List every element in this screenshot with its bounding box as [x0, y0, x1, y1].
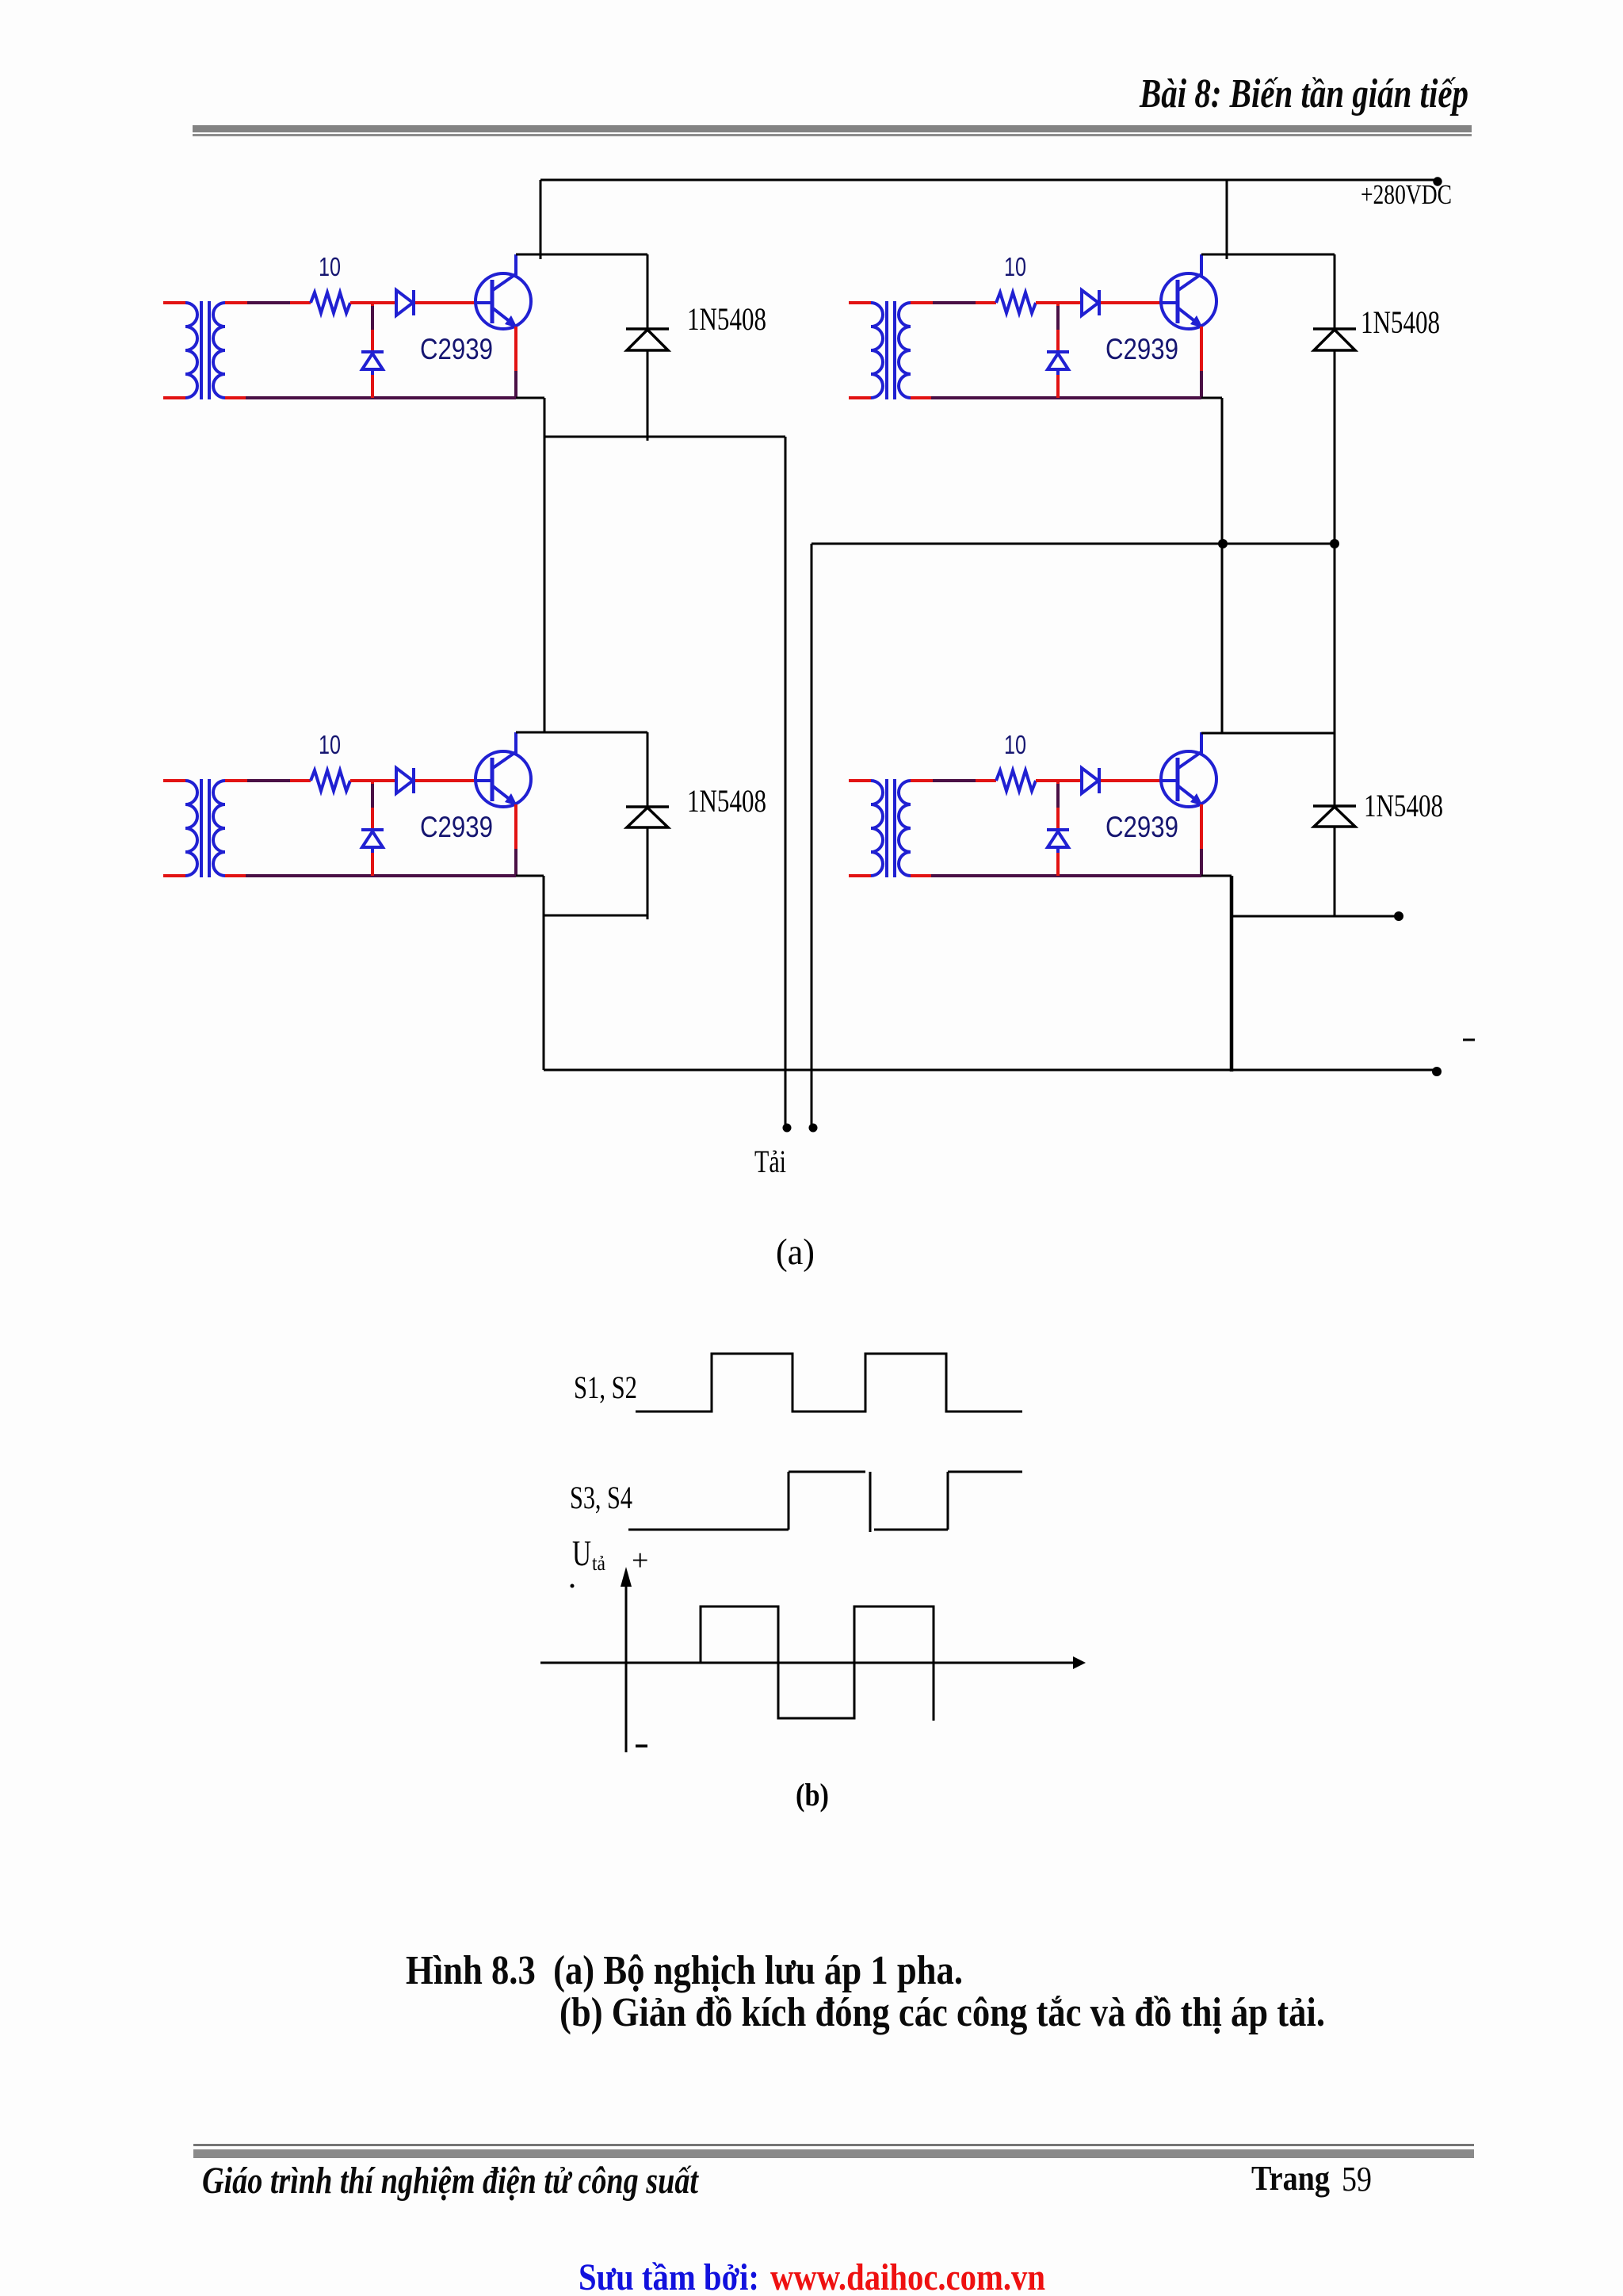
svg-text:Bài 8: Biến tần gián tiếp: Bài 8: Biến tần gián tiếp	[1139, 71, 1468, 117]
svg-text:1N5408: 1N5408	[687, 783, 766, 819]
svg-text:1N5408: 1N5408	[1361, 304, 1440, 340]
svg-text:(a): (a)	[776, 1232, 815, 1273]
svg-text:Giáo trình thí nghiệm điện tử: Giáo trình thí nghiệm điện tử công suất	[202, 2160, 699, 2202]
svg-text:tả: tả	[592, 1552, 605, 1575]
svg-text:(b) Giản đồ kích đóng các công: (b) Giản đồ kích đóng các công tắc và đồ…	[559, 1990, 1325, 2035]
svg-text:+: +	[632, 1544, 648, 1577]
svg-text:Sưu tầm bởi:: Sưu tầm bởi:	[579, 2256, 759, 2296]
svg-text:www.daihoc.com.vn: www.daihoc.com.vn	[770, 2256, 1045, 2296]
svg-text:Hình 8.3 (a) Bộ nghịch lưu áp: Hình 8.3 (a) Bộ nghịch lưu áp 1 pha.	[406, 1948, 963, 1993]
svg-text:+280VDC: +280VDC	[1361, 179, 1452, 210]
svg-text:1N5408: 1N5408	[1364, 788, 1443, 823]
svg-text:Trang: Trang	[1251, 2159, 1330, 2198]
svg-text:(b): (b)	[796, 1777, 829, 1813]
svg-text:59: 59	[1342, 2160, 1372, 2199]
svg-text:U: U	[572, 1533, 591, 1573]
svg-text:1N5408: 1N5408	[687, 301, 766, 337]
svg-text:S3, S4: S3, S4	[570, 1480, 632, 1515]
svg-text:Tải: Tải	[754, 1144, 786, 1179]
svg-text:S1, S2: S1, S2	[574, 1370, 637, 1405]
